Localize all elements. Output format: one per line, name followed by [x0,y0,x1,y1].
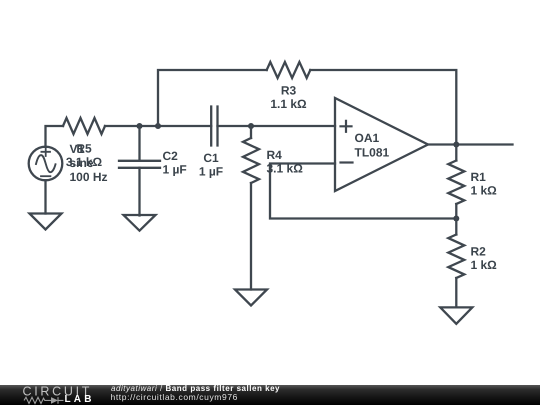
capacitor C2 branch wire top [138,126,140,161]
logo diode bar and tail wire [58,397,64,404]
wire C2 bottom lead [138,168,140,216]
voltage source V1 body [29,147,63,181]
op-amp plus input symbol [341,121,352,132]
svg-text:R2: R2 [471,245,487,259]
svg-text:OA1: OA1 [355,131,380,145]
ground (V1) [30,214,62,230]
wire V1 top lead to R5 [46,126,64,147]
logo resistor squiggle [24,397,51,403]
svg-text:1 kΩ: 1 kΩ [471,258,498,272]
wire R2 bottom lead [455,278,457,307]
op-amp minus input symbol [341,161,353,163]
resistor R2 [448,235,464,279]
V1 plus sign [41,148,50,156]
svg-text:R1: R1 [471,170,487,184]
V1 minus sign [41,175,50,177]
wire op-amp output [428,143,513,145]
resistor R5 [63,118,105,134]
svg-text:3.1 kΩ: 3.1 kΩ [66,155,103,169]
svg-text:R4: R4 [267,148,283,162]
wire R1 bottom lead [455,204,457,219]
wire R1 top lead [455,145,457,161]
svg-text:C2: C2 [163,149,179,163]
wire R2 top lead [455,219,457,235]
wire R5 to node A to node B to C1 [105,125,211,127]
wire R4 top lead [250,126,252,138]
logo diode symbol [51,397,58,404]
node A junction dot (C2 tap) [137,123,143,129]
svg-text:TL081: TL081 [355,146,390,160]
ground (C2) [124,215,156,231]
wire R3 to output node [310,70,456,145]
svg-text:1 µF: 1 µF [163,163,187,177]
capacitor C2 plates [119,161,160,168]
svg-text:3.1 kΩ: 3.1 kΩ [267,162,304,176]
op-amp OA1 triangle [335,98,428,191]
resistor R1 [448,161,464,205]
wire V1 bottom lead [44,180,46,213]
capacitor C1 plates [211,107,217,146]
svg-text:1 kΩ: 1 kΩ [471,184,498,198]
resistor R4 [243,138,259,183]
wire minus input to divider node [270,164,456,219]
svg-text:R3: R3 [281,84,297,98]
ground (R2) [440,307,472,323]
node divider junction dot [453,216,459,222]
ground (R4) [235,290,267,306]
wire C1 to node C to op-amp plus input [218,125,336,127]
wire R4 bottom lead [250,183,252,290]
wire feedback: node B up and across to R3 [158,70,267,126]
svg-text:100 Hz: 100 Hz [70,170,108,184]
svg-text:C1: C1 [203,151,219,165]
node output junction dot [453,142,459,148]
node C junction dot (R4 tap) [248,123,254,129]
svg-text:1 µF: 1 µF [199,165,223,179]
resistor R3 [267,62,311,78]
node B junction dot (feedback tap) [155,123,161,129]
svg-text:LAB: LAB [65,394,95,405]
svg-text:1.1 kΩ: 1.1 kΩ [270,97,307,111]
svg-text:R5: R5 [76,142,92,156]
